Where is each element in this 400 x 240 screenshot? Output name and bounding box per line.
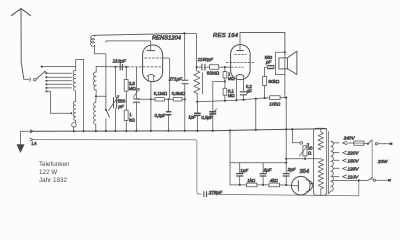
svg-text:0,5µF: 0,5µF	[201, 115, 212, 120]
svg-text:150V: 150V	[348, 158, 360, 163]
wire L1 top return to bus	[83, 59, 85, 131]
capacitor 0.5uF	[213, 81, 225, 130]
switch contact nodes	[45, 72, 47, 92]
capacitor 550pF	[268, 66, 274, 69]
svg-text:0,8MΩ: 0,8MΩ	[172, 91, 186, 96]
tube V1 RENS1204 envelope	[143, 45, 163, 82]
grid leak zigzag R 82M	[194, 71, 200, 102]
svg-text:µF: µF	[247, 89, 252, 94]
capacitor 110pF	[120, 64, 122, 70]
terminal LA	[30, 138, 33, 141]
cap C 1uF	[239, 163, 241, 185]
tube V2 RES164 envelope	[231, 45, 251, 80]
svg-text:LA: LA	[32, 141, 37, 146]
coil L1 lower section	[73, 101, 75, 120]
output transformer loop	[276, 52, 285, 74]
fuse	[347, 142, 354, 144]
svg-text:1150pF: 1150pF	[198, 57, 215, 62]
svg-text:125V: 125V	[348, 166, 360, 171]
svg-text:82MΩ: 82MΩ	[207, 71, 220, 76]
speaker return down	[285, 52, 287, 74]
wire contact to lower coil tap	[46, 91, 71, 113]
svg-text:80kΩ: 80kΩ	[268, 79, 279, 84]
V2 dashes	[235, 54, 247, 56]
svg-text:110V: 110V	[348, 174, 359, 179]
svg-text:kΩ: kΩ	[129, 118, 135, 123]
variable capacitor 550pF	[109, 67, 120, 131]
switch S1 pivot	[34, 78, 37, 81]
V1 anode line	[163, 58, 170, 99]
secondary coil with taps	[331, 141, 334, 191]
row2 line	[197, 98, 286, 102]
bias bottom rail	[230, 184, 292, 186]
capacitor 0.2uF (V2 cathode)	[240, 92, 246, 95]
speaker LS	[279, 51, 297, 74]
LA line	[33, 140, 202, 195]
wire row2 to bus	[255, 99, 257, 130]
V2 cathode	[236, 74, 245, 76]
svg-text:MΩ: MΩ	[129, 86, 137, 91]
resistor 1M	[224, 67, 226, 72]
coil L1 upper (antenna coil)	[76, 59, 84, 70]
node coil lower tap	[70, 112, 72, 114]
svg-text:550: 550	[118, 99, 126, 104]
svg-text:0,2µF: 0,2µF	[155, 113, 166, 118]
resistor 10k	[270, 96, 280, 100]
node 550pF	[114, 66, 116, 68]
node	[224, 66, 226, 68]
mains switch top	[367, 143, 369, 145]
resistor 0.8M	[173, 98, 182, 102]
svg-text:Jahr 1932: Jahr 1932	[39, 177, 68, 184]
power transformer loop	[314, 128, 327, 195]
svg-text:10kΩ: 10kΩ	[269, 101, 280, 106]
wire anode top line tube V1	[106, 41, 151, 50]
V2 anode lead	[239, 33, 241, 51]
wire mid-tap to band switch	[96, 96, 106, 108]
switch link	[371, 140, 373, 180]
node anode junction	[167, 98, 169, 100]
capacitor 1150pF	[197, 66, 210, 68]
svg-text:pF: pF	[265, 59, 271, 64]
svg-text:2µF: 2µF	[263, 168, 272, 173]
antenna	[12, 9, 31, 80]
rheostat feed	[292, 129, 299, 143]
svg-text:Ω: Ω	[308, 151, 312, 156]
node grid leak	[125, 66, 127, 68]
V1 cathode	[147, 74, 155, 76]
plate line beside grid leak	[202, 73, 204, 94]
svg-text:220V: 220V	[347, 151, 360, 156]
V1 grid dashes	[128, 66, 161, 68]
terminal arc	[30, 78, 31, 81]
svg-text:1kΩ: 1kΩ	[247, 178, 256, 183]
bias network	[229, 130, 231, 185]
svg-text:240V: 240V	[343, 135, 356, 140]
resistor 80k	[263, 77, 267, 86]
node L2 mid tap	[95, 95, 97, 97]
node top tap	[41, 66, 43, 68]
transformer core line	[328, 132, 330, 194]
resistor 0.1M	[223, 88, 227, 95]
HT drop with 271pF	[183, 32, 185, 34]
svg-text:RES 164: RES 164	[213, 33, 239, 39]
switch S1 arm	[36, 72, 45, 80]
wire antenna to switch pivot	[24, 78, 29, 80]
pigtail curl to bus	[75, 121, 77, 123]
resistor 4k bias	[269, 183, 280, 187]
primary zigzag upper	[318, 128, 323, 150]
wire top tap to coil top	[42, 66, 76, 68]
wires contacts to coil L1 taps	[46, 73, 71, 88]
svg-text:MΩ: MΩ	[228, 93, 235, 98]
capacitor 275pF	[204, 192, 207, 197]
V2 top bar	[237, 50, 244, 52]
trimmer capacitor	[133, 67, 139, 131]
capacitor 0.2uF	[166, 99, 170, 131]
svg-text:4kΩ: 4kΩ	[270, 178, 279, 183]
band switch S2	[105, 109, 107, 111]
svg-text:20W: 20W	[377, 159, 388, 164]
title block	[39, 161, 70, 184]
earth lead	[21, 131, 33, 145]
ground bus	[33, 129, 327, 132]
svg-text:122 W: 122 W	[39, 169, 57, 176]
mains switch bottom	[358, 179, 360, 181]
coil L3 (feedback) top-left	[93, 34, 95, 37]
capacitor 1uF	[196, 101, 198, 103]
V1 cathode drop	[150, 82, 152, 131]
svg-text:2µF: 2µF	[287, 167, 296, 172]
resistor 1k	[124, 110, 128, 131]
cap C 2uF b	[285, 129, 287, 185]
grid line to tube V1	[96, 66, 127, 68]
resistor 2.5M grid leak	[124, 67, 128, 110]
rheostat 10 ohm	[303, 146, 307, 156]
wire L3 top long line to grid cap node	[94, 33, 184, 35]
cap C 2uF a	[262, 163, 264, 185]
ground symbol	[17, 145, 24, 153]
V1 screen dashes	[145, 57, 161, 59]
resistor 82M	[210, 65, 219, 70]
svg-text:pF: pF	[117, 104, 125, 109]
svg-text:Telefunken: Telefunken	[39, 161, 70, 168]
svg-text:354: 354	[299, 169, 309, 175]
wire L3 bottom to anode drop	[94, 46, 106, 97]
rectifier 354	[292, 176, 311, 195]
V1 top cap	[147, 50, 155, 52]
svg-text:1µF: 1µF	[188, 115, 196, 120]
svg-text:0,1MΩ: 0,1MΩ	[154, 91, 168, 96]
primary zigzag lower	[317, 159, 324, 195]
grid cap node line	[185, 33, 197, 70]
svg-text:1µF: 1µF	[240, 168, 248, 173]
resistor 1k bias	[246, 183, 257, 187]
taps	[333, 141, 346, 178]
svg-text:271pF: 271pF	[168, 76, 183, 81]
capacitor 271pF	[182, 80, 188, 84]
svg-text:RENS1204: RENS1204	[152, 35, 181, 41]
node grid2	[196, 66, 198, 68]
LA line right	[207, 180, 359, 195]
coil L2 upper (grid coil)	[95, 67, 97, 72]
resistor 0.1M	[136, 98, 155, 100]
V2 anode top line to output transformer	[240, 33, 285, 53]
svg-text:110pF: 110pF	[113, 58, 127, 64]
svg-text:1: 1	[129, 112, 132, 117]
coil L2 lower	[95, 96, 97, 102]
bus nodes	[73, 128, 294, 132]
V2 legs	[235, 76, 237, 100]
heater line	[286, 158, 316, 160]
terminal A	[30, 130, 33, 133]
